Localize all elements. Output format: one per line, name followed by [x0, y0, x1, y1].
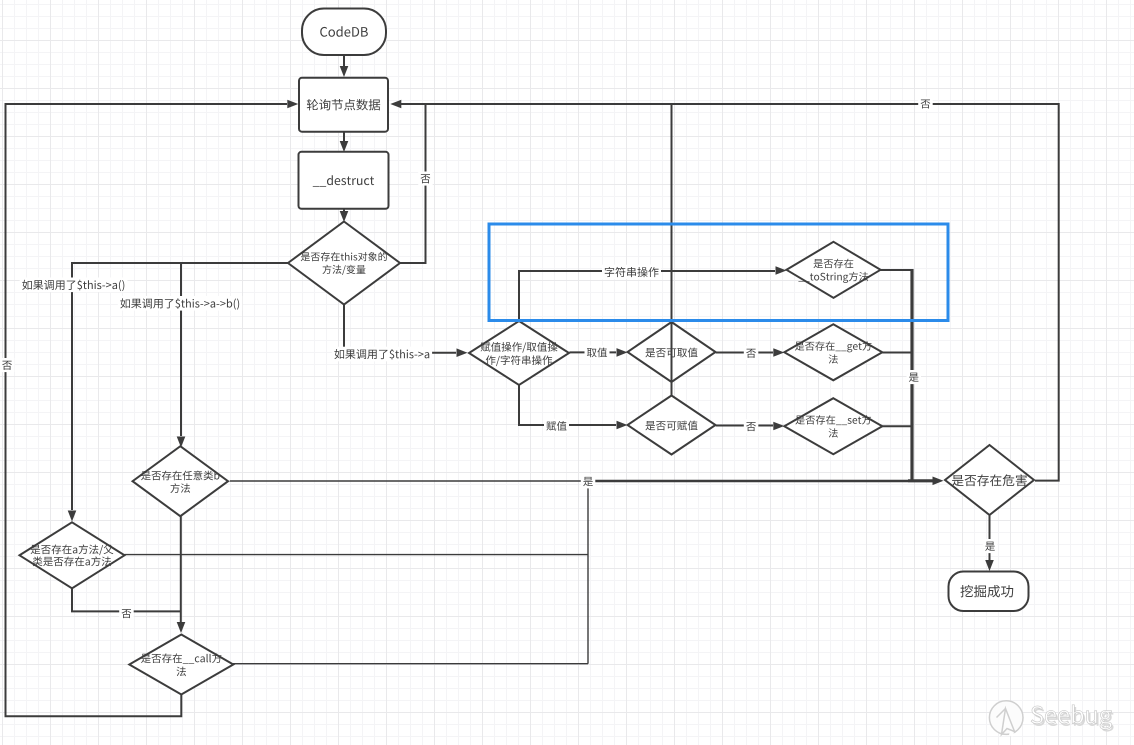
wire: 是否可赋值 top up through 是否可取值 to top bus: [671, 104, 673, 395]
wire: CodeDB to 轮询节点数据: [343, 55, 345, 66]
wire: this-diamond left branch to a-method diamond: [72, 263, 288, 510]
node: CodeDB terminator: [302, 9, 386, 56]
label: 否 (left loop): [0, 358, 14, 372]
wire: branch at x=181 down to 任意类b diamond: [180, 263, 182, 436]
wire: __get right to right-bus: [882, 352, 912, 354]
node: terminator 挖掘成功: [949, 572, 1029, 612]
watermark: Seebug logo: [989, 701, 1023, 736]
node: decision 是否存在__call方法: [129, 635, 233, 695]
wire: 是否可取值 right to __get diamond (否): [716, 352, 773, 354]
label: 是 (right bus): [907, 370, 922, 384]
node: decision 是否存在__toString方法: [787, 242, 881, 298]
label: 如果调用了$this->a(): [20, 278, 128, 293]
wire: __call diamond right to mid bus: [233, 663, 588, 665]
wire: 赋值操作 bottom to 是否可赋值 (赋值): [519, 385, 616, 425]
wire: __call bottom big left loop back to 轮询节点数据: [6, 104, 288, 716]
label: 否 (可取值 to __get): [744, 346, 759, 360]
node: decision 是否存在__set方法: [784, 398, 882, 454]
label: 是 (merged bus junction): [581, 474, 596, 488]
node: __destruct process box: [299, 152, 389, 209]
wire: a-method bottom 否 to x=181 vertical: [72, 588, 181, 611]
wire: 赋值操作 right to 是否可取值 (取值): [569, 351, 616, 353]
wire: 危害 bottom to 挖掘成功 (是): [989, 515, 991, 560]
node: decision 是否可取值: [628, 322, 716, 382]
label: 否 (可赋值 to __set): [744, 419, 759, 433]
wire: 任意类b bottom down to __call diamond: [180, 516, 182, 622]
label: 字符串操作: [602, 265, 661, 280]
wire: vertical bus passing through 是否可取值: [671, 322, 673, 395]
wire: this-diamond right, 否, up to top bus: [400, 104, 426, 263]
label: 赋值: [544, 419, 569, 433]
node: decision 是否存在危害: [945, 445, 1034, 515]
label: 是 (危害 to 挖掘成功): [983, 539, 998, 553]
wire: 是否可赋值 right to __set diamond (否): [716, 425, 773, 427]
label: 否 (a-method bottom): [119, 606, 134, 620]
wire: top bus from 危害 diamond back to 轮询节点数据: [399, 104, 1059, 481]
wire: a-method diamond right to mid bus: [125, 554, 589, 556]
label: 否 (top bus): [918, 97, 933, 111]
node: decision 是否存在this对象的方法/变量: [288, 222, 400, 305]
wire: 轮询节点数据 to __destruct: [343, 132, 345, 142]
node: decision 是否可赋值: [628, 396, 716, 455]
wire: 任意类b right to merge junction: [230, 480, 588, 482]
node: decision 是否存在任意类b方法: [133, 446, 229, 516]
label: 如果调用了$this->a: [332, 347, 432, 362]
wire: __destruct to this-diamond: [343, 209, 345, 211]
node: decision 是否存在__get方法: [784, 324, 882, 380]
highlight: blue selection rectangle: [489, 224, 948, 321]
label: 否 (this diamond to top bus): [418, 172, 433, 186]
watermark: Seebug text: [1033, 707, 1114, 732]
node: 轮询节点数据 process box: [299, 78, 388, 132]
wire: __set right to right-bus: [882, 425, 912, 427]
label: 如果调用了$this->a->b(): [118, 296, 242, 311]
wire: mid vertical bus x=588 collecting lower diamonds: [587, 481, 589, 664]
label: 取值: [585, 345, 610, 359]
wire: merged 是-bus into 危害 diamond: [588, 480, 908, 482]
node: decision 是否存在a方法/父类是否存在a方法: [20, 522, 125, 588]
wire: this-diamond bottom to 赋值操作 diamond: [344, 305, 456, 353]
wire: __toString right down right-bus (是): [881, 269, 913, 271]
node: decision 赋值操作/取值操作/字符串操作: [469, 321, 569, 385]
wire: 赋值操作 top to __toString diamond (字符串操作): [519, 271, 775, 322]
